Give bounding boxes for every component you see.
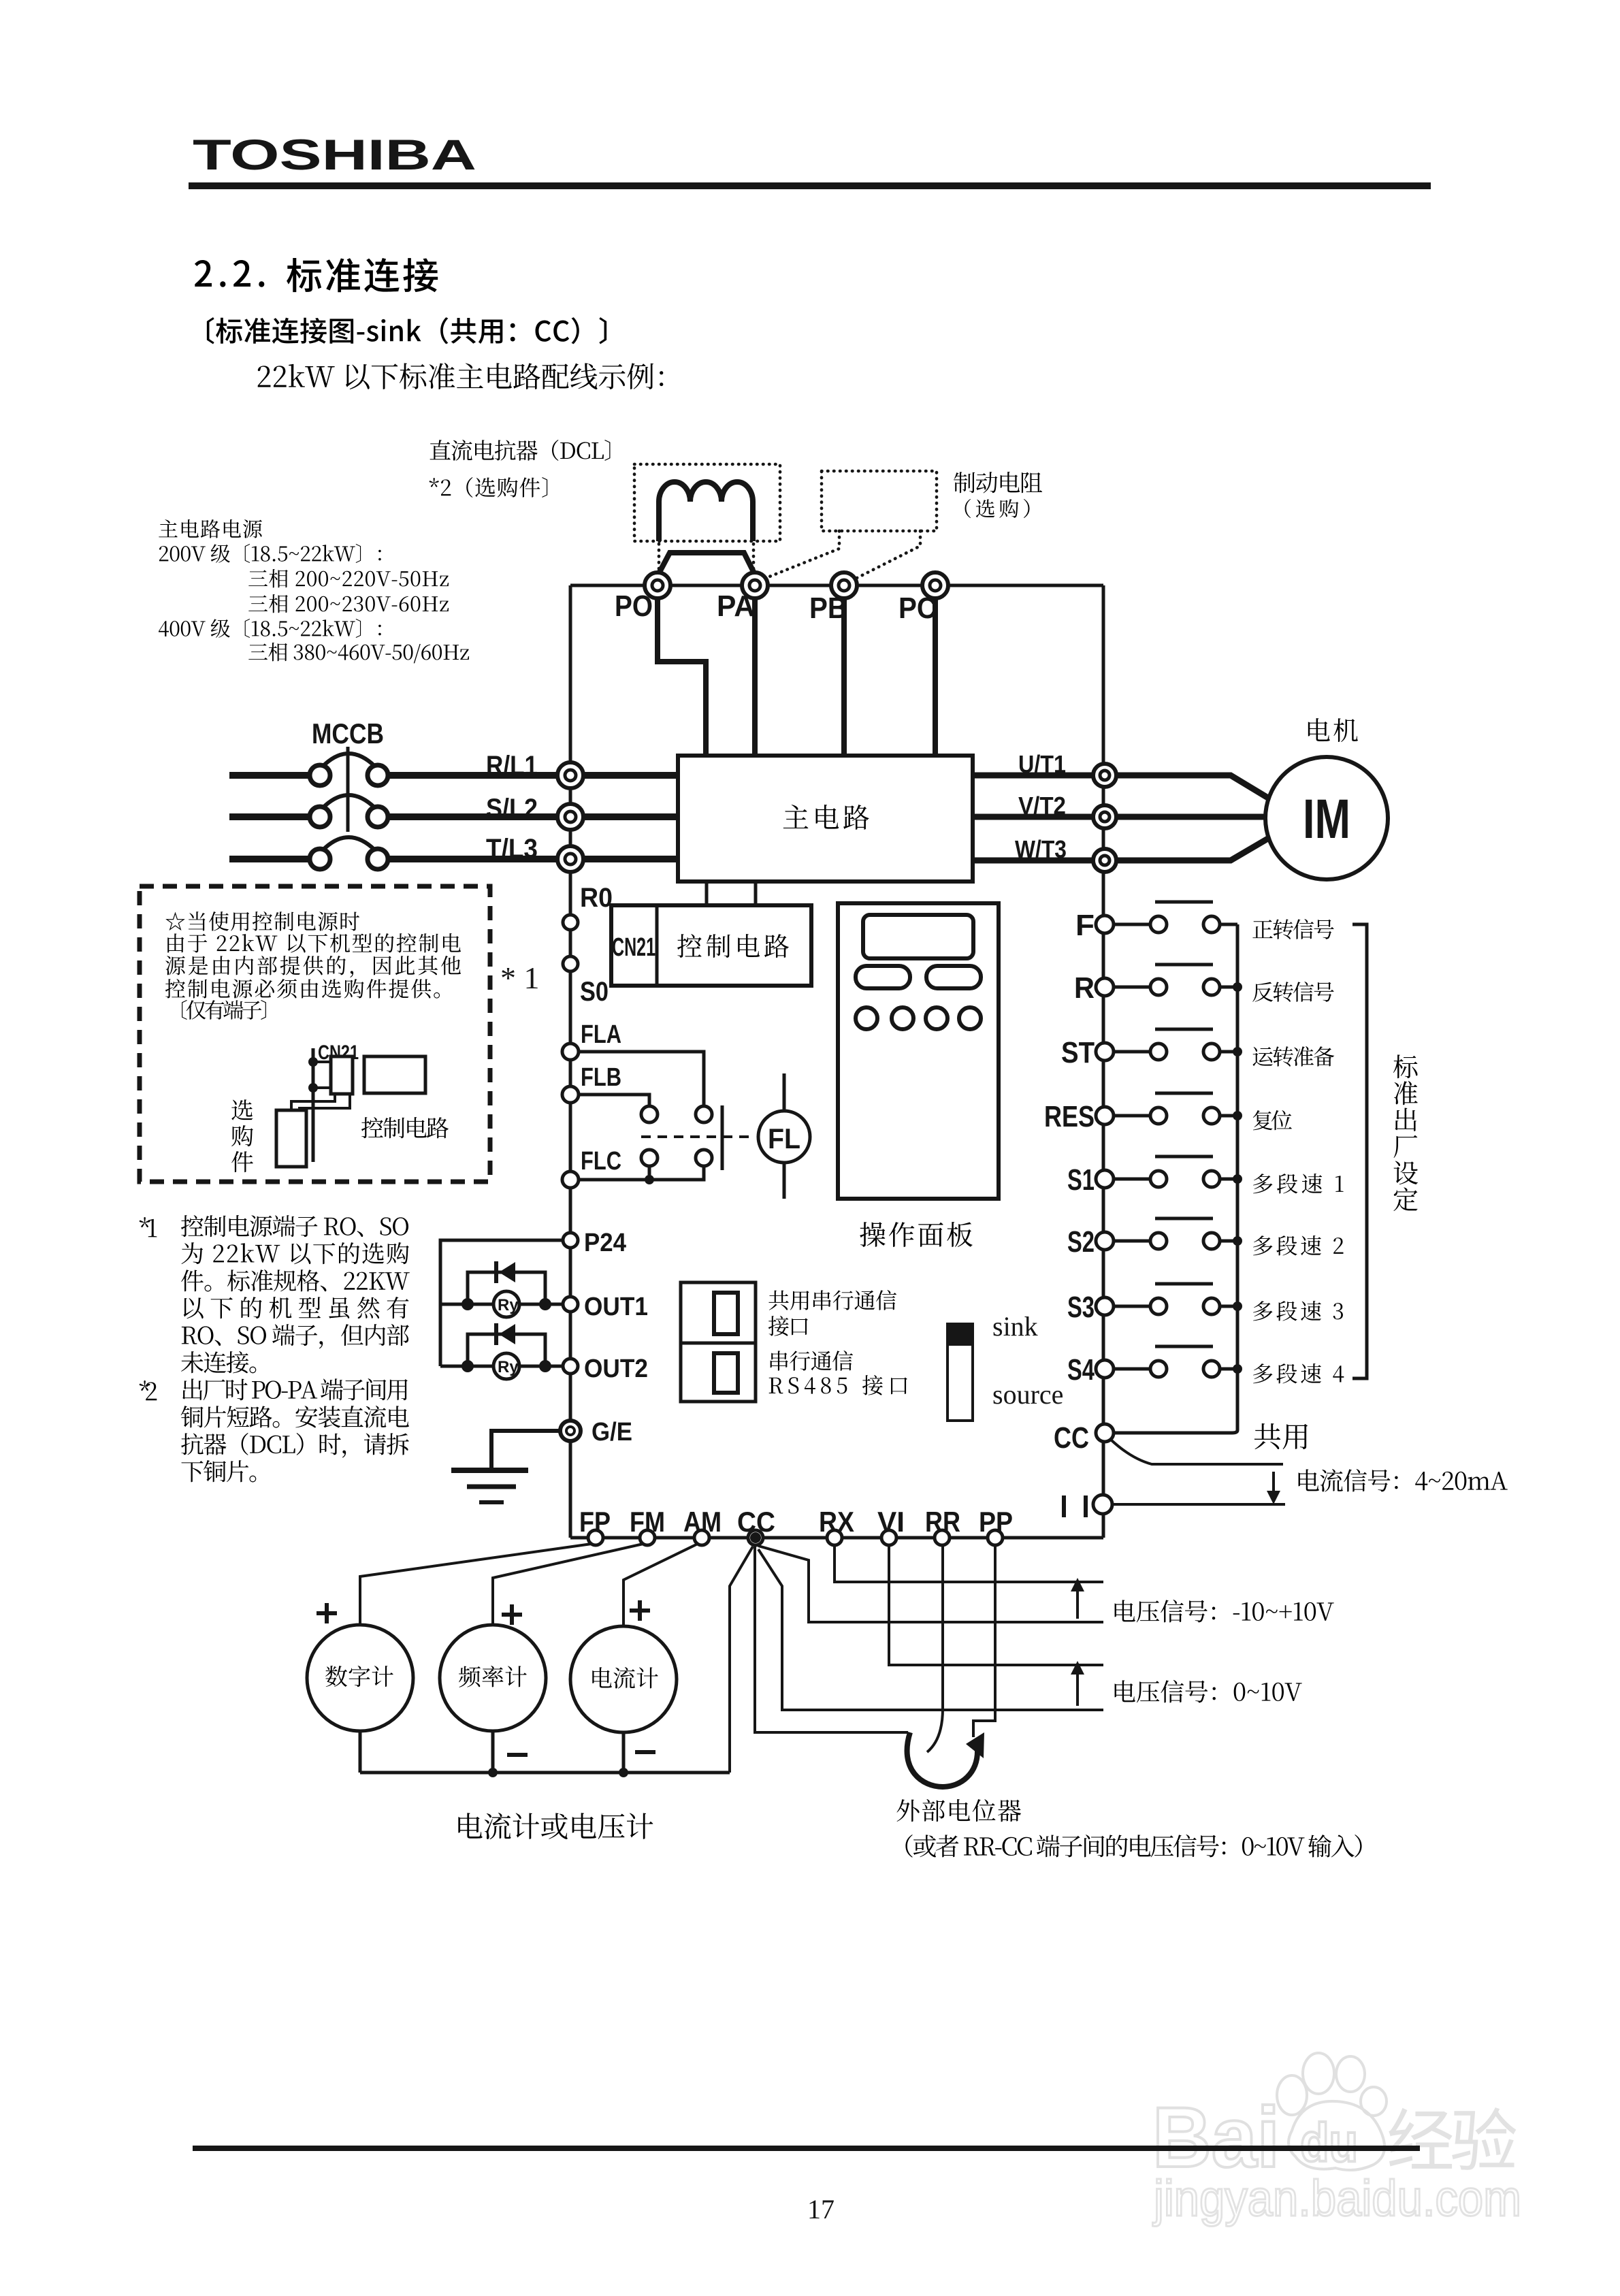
- switch row S2: [1114, 1240, 1150, 1243]
- braking resistor dotted box: [822, 471, 937, 531]
- note line3: [165, 956, 461, 977]
- wire PB drop: [841, 598, 847, 757]
- svg-text:G/E: G/E: [592, 1418, 632, 1446]
- connector CN21 divider: [655, 905, 659, 986]
- terminal G/E: [560, 1421, 581, 1441]
- mini junction1: [308, 1057, 318, 1067]
- header rule: [189, 182, 1431, 189]
- terminal W/T3: [1093, 849, 1116, 872]
- wire top bus PO-PC: [570, 584, 1103, 587]
- label DCL: [430, 440, 611, 461]
- terminal CC bottom: [748, 1530, 763, 1545]
- wire II line: [1112, 1503, 1285, 1506]
- wire meters common: [360, 1771, 730, 1775]
- terminal P24: [563, 1233, 578, 1248]
- svg-text:TOSHIBA: TOSHIBA: [193, 131, 476, 179]
- label DCL option: [430, 477, 548, 498]
- terminal II: [1093, 1495, 1112, 1514]
- svg-text:OUT1: OUT1: [584, 1293, 648, 1321]
- wire AM to meter3: [623, 1544, 698, 1627]
- serial connector box: [681, 1282, 756, 1402]
- footnote *1 mark: [140, 1217, 157, 1237]
- label serial rs485a: [771, 1351, 853, 1371]
- svg-text:R: R: [1074, 971, 1095, 1005]
- current signal arrow: [1272, 1472, 1275, 1493]
- label run ready: [1252, 1046, 1334, 1067]
- label 3ph 200-230: [248, 594, 449, 613]
- terminal PC: [922, 572, 948, 598]
- label operation panel: [860, 1222, 973, 1247]
- label reset: [1253, 1110, 1292, 1130]
- switch row S4: [1114, 1368, 1150, 1371]
- label serial rs485b: [769, 1375, 907, 1395]
- control circuit box: [611, 905, 811, 986]
- svg-text:FLB: FLB: [581, 1063, 621, 1092]
- meter digital: [307, 1625, 413, 1731]
- svg-text:FL: FL: [768, 1122, 800, 1154]
- wire PO-PA jumper: [658, 553, 755, 576]
- footnote *2 mark: [140, 1380, 157, 1400]
- terminal S/L2: [557, 804, 583, 830]
- wire FP to meter1: [360, 1544, 592, 1627]
- mini option box: [276, 1110, 306, 1167]
- svg-text:RX: RX: [819, 1506, 854, 1538]
- mini vertical wire: [312, 1048, 315, 1162]
- svg-text:Ry: Ry: [498, 1358, 519, 1376]
- motor IM circle: [1265, 757, 1388, 879]
- wire FLC to contacts: [579, 1167, 704, 1180]
- svg-text:FP: FP: [579, 1506, 611, 1538]
- label braking optional: [965, 499, 1030, 518]
- breaker MCCB arcs: [323, 754, 375, 766]
- wire VI drop: [889, 1545, 1103, 1665]
- relay Ry2 coil: [493, 1353, 519, 1379]
- wire PA drop: [752, 598, 758, 757]
- wire left frame: [569, 585, 572, 1538]
- inductor DCL coil: [659, 482, 753, 541]
- svg-text:OUT2: OUT2: [584, 1355, 648, 1383]
- breaker MCCB pole contacts: [310, 765, 330, 786]
- serial connector pin1: [714, 1293, 738, 1334]
- leader to PB dotted: [850, 531, 920, 581]
- svg-text:S3: S3: [1067, 1291, 1095, 1324]
- wire mainbox to ctrlbox b: [754, 882, 758, 905]
- wire meters return to CC: [730, 1547, 753, 1773]
- footer rule overlay: [193, 2146, 1420, 2151]
- wire output V/T2: [973, 814, 1267, 820]
- label digital meter: [325, 1666, 393, 1687]
- terminal RX bottom: [827, 1530, 842, 1545]
- label braking resistor: [954, 472, 1042, 493]
- wire FL stub top: [783, 1073, 786, 1111]
- wire CC to current line: [1111, 1440, 1283, 1464]
- wire FL stub bottom: [783, 1163, 786, 1199]
- junction dots relay rows: [461, 1298, 474, 1310]
- diode D2: [499, 1324, 515, 1344]
- wire phase T/L3 feed: [229, 856, 309, 862]
- svg-text:S/L2: S/L2: [486, 794, 538, 824]
- junction CC bottom: [750, 1532, 761, 1543]
- contact FL switch circles: [641, 1106, 658, 1122]
- terminal FLA: [562, 1044, 579, 1060]
- label external potentiometer: [896, 1799, 1021, 1822]
- svg-text:PB: PB: [809, 592, 847, 625]
- svg-text:PP: PP: [979, 1506, 1013, 1538]
- wire mainbox to ctrlbox a: [705, 882, 709, 905]
- svg-text:F: F: [1075, 909, 1095, 942]
- label reverse signal: [1252, 982, 1333, 1002]
- minus sign meter3: [635, 1750, 655, 1754]
- svg-text:source: source: [992, 1379, 1063, 1410]
- wire CC to vs1 low: [758, 1546, 1103, 1622]
- mini stub1: [313, 1061, 331, 1063]
- footer rule: [193, 2146, 1420, 2151]
- svg-text:RR: RR: [925, 1506, 960, 1538]
- terminal V/T2: [1093, 805, 1116, 828]
- footnote1 line4: [184, 1297, 409, 1319]
- wire PO drop with jog: [658, 598, 706, 757]
- mini socket rect: [364, 1056, 425, 1093]
- wire FLB to contact: [579, 1095, 649, 1105]
- switch row ST: [1114, 1050, 1150, 1054]
- wire FM to meter2: [493, 1544, 643, 1627]
- wire output W/T3: [973, 837, 1270, 860]
- junction meter3: [619, 1768, 628, 1777]
- footnote2 line2: [181, 1406, 409, 1428]
- FL linkage bar: [721, 1105, 724, 1170]
- serial connector pin2: [714, 1353, 738, 1393]
- svg-text:MCCB: MCCB: [312, 717, 384, 749]
- label serial common2: [768, 1316, 808, 1336]
- terminal RR bottom: [935, 1530, 950, 1545]
- wire CC to vs2 low: [758, 1549, 1103, 1710]
- svg-text:U/T1: U/T1: [1018, 750, 1066, 778]
- note line4: [165, 979, 440, 999]
- footnote1 line2: [182, 1242, 409, 1264]
- wire bottom bus: [570, 1536, 1103, 1540]
- label II: [1062, 1495, 1066, 1517]
- terminal U/T1: [1093, 764, 1116, 787]
- FL linkage dashed: [641, 1135, 756, 1138]
- wire phase S/L2 feed: [229, 813, 309, 820]
- relay Ry1 coil: [493, 1291, 519, 1317]
- mini junction2: [308, 1083, 318, 1093]
- wire to ground: [491, 1431, 560, 1469]
- breaker MCCB tie bar: [346, 747, 350, 832]
- svg-text:AM: AM: [683, 1506, 722, 1538]
- wire phase R/L1 feed: [229, 772, 309, 779]
- wire PC drop: [933, 598, 938, 757]
- svg-text:CC: CC: [1054, 1421, 1089, 1455]
- svg-text:VI: VI: [877, 1506, 905, 1538]
- wire PP drop: [973, 1545, 995, 1737]
- svg-text:FM: FM: [630, 1506, 665, 1538]
- wire RR wiper: [927, 1545, 943, 1752]
- terminal FLC: [562, 1171, 579, 1188]
- wire DCL leg right dotted: [752, 544, 756, 572]
- wire right frame: [1102, 585, 1105, 1538]
- wire P24 rail: [440, 1240, 563, 1366]
- main circuit box: [678, 756, 973, 882]
- label current meter: [592, 1667, 658, 1689]
- serial connector divider: [681, 1342, 756, 1345]
- svg-text:IM: IM: [1303, 788, 1350, 850]
- terminal S0: [563, 956, 578, 971]
- svg-text:R/L1: R/L1: [486, 751, 538, 781]
- watermark jingyan cjk: [1389, 2107, 1516, 2170]
- svg-text:du: du: [1300, 2112, 1358, 2173]
- heading 标准连接: [287, 258, 438, 292]
- svg-text:17: 17: [807, 2194, 835, 2225]
- label main circuit: [783, 805, 869, 830]
- watermark paw: [1277, 2053, 1387, 2170]
- footnote1 line6: [181, 1351, 256, 1373]
- terminal VI bottom: [881, 1530, 896, 1545]
- svg-text:PO: PO: [615, 589, 653, 623]
- footnote1 line5: [182, 1324, 409, 1348]
- terminal FP bottom: [588, 1530, 603, 1545]
- label rr-cc note: [905, 1834, 1361, 1858]
- terminal PB: [831, 572, 857, 598]
- bracket standard setting: [1352, 924, 1367, 1378]
- switch row R: [1114, 986, 1150, 989]
- arrow vs1: [1076, 1587, 1079, 1619]
- meter frequency: [440, 1625, 546, 1731]
- meter current: [570, 1626, 677, 1732]
- keypad button2: [926, 966, 981, 988]
- keypad keys: [856, 1007, 877, 1029]
- svg-text:T/L3: T/L3: [486, 834, 538, 864]
- plus sign meter3: [630, 1600, 650, 1621]
- label control circuit small: [361, 1117, 449, 1138]
- label multispeed1: [1253, 1174, 1344, 1194]
- label ammeter or voltmeter: [458, 1813, 653, 1839]
- diode loop1: [468, 1272, 545, 1304]
- wire CC to pot: [755, 1547, 908, 1732]
- svg-text:V/T2: V/T2: [1018, 792, 1066, 820]
- junction meter2: [488, 1768, 498, 1777]
- label multispeed4: [1253, 1363, 1344, 1384]
- label multispeed3: [1253, 1301, 1343, 1321]
- svg-text:P24: P24: [584, 1229, 626, 1257]
- svg-text:sink: sink: [992, 1311, 1038, 1342]
- terminal R/L1: [557, 762, 583, 788]
- terminal FLB: [562, 1086, 579, 1103]
- sink-source switch knob: [947, 1324, 973, 1346]
- wire DCL leg left dotted: [658, 544, 661, 572]
- footnote2 line4: [181, 1460, 256, 1482]
- label 400V class: [159, 619, 381, 638]
- label voltage signal 1: [1115, 1600, 1334, 1622]
- arrow vs2: [1076, 1670, 1079, 1706]
- svg-text:* 1: * 1: [500, 960, 540, 995]
- plus sign meter2: [502, 1604, 522, 1625]
- terminal AM bottom: [694, 1530, 709, 1545]
- junction FLC: [645, 1175, 654, 1184]
- label 3ph 380-460: [248, 643, 469, 663]
- mini wire step2: [299, 1094, 350, 1110]
- subheading sink CC: [207, 317, 606, 344]
- wire output U/T1: [973, 775, 1270, 799]
- plus sign meter1: [317, 1603, 337, 1623]
- wire OUT1 row: [440, 1303, 563, 1306]
- svg-text:jingyan.baidu.com: jingyan.baidu.com: [1152, 2170, 1521, 2227]
- minus sign meter2: [507, 1753, 528, 1757]
- footnote1 line1: [181, 1215, 408, 1237]
- svg-text:PA: PA: [717, 589, 755, 623]
- keypad display: [863, 915, 973, 958]
- diode loop2: [468, 1334, 545, 1366]
- wire RX drop: [835, 1545, 1103, 1582]
- switch row RES: [1114, 1114, 1150, 1118]
- diode D1: [499, 1262, 515, 1282]
- terminal PP bottom: [988, 1530, 1003, 1545]
- terminal PO: [645, 572, 670, 598]
- svg-text:ST: ST: [1061, 1036, 1095, 1069]
- terminal OUT1: [563, 1297, 578, 1312]
- mini wire step1: [291, 1094, 335, 1110]
- note dashed box: [140, 886, 490, 1182]
- svg-text:S1: S1: [1067, 1163, 1095, 1197]
- footnote2 line3: [181, 1433, 409, 1458]
- svg-text:S4: S4: [1067, 1353, 1095, 1387]
- switch row S3: [1114, 1305, 1150, 1308]
- svg-text:FLC: FLC: [581, 1147, 621, 1176]
- label serial common1: [768, 1290, 896, 1310]
- svg-text:RES: RES: [1044, 1100, 1095, 1133]
- svg-text:FLA: FLA: [581, 1020, 621, 1049]
- relay coil FL: [758, 1111, 810, 1163]
- terminal R0: [563, 915, 578, 930]
- wire FLA to contact: [579, 1052, 704, 1105]
- label main power: [159, 519, 262, 538]
- svg-text:S0: S0: [580, 977, 609, 1007]
- line 22kW example: [258, 363, 664, 389]
- wire OUT2 row: [440, 1365, 563, 1368]
- terminal T/L3: [557, 846, 583, 872]
- mini stub2: [313, 1086, 331, 1089]
- switch row F: [1114, 923, 1150, 926]
- svg-text:W/T3: W/T3: [1015, 835, 1067, 863]
- label forward signal: [1252, 919, 1333, 939]
- label standard factory setting: [1393, 1054, 1418, 1211]
- wire meter2 bottom: [491, 1731, 495, 1773]
- svg-text:R0: R0: [580, 883, 613, 913]
- sink-source switch body: [947, 1324, 973, 1421]
- note line5: [182, 1000, 266, 1020]
- potentiometer arc: [907, 1732, 977, 1787]
- ground symbol: [451, 1468, 528, 1473]
- note line2: [167, 933, 461, 953]
- keypad button1: [856, 966, 910, 988]
- svg-text:CN21: CN21: [612, 933, 655, 962]
- label common: [1254, 1423, 1308, 1449]
- footnote2 line1: [182, 1378, 408, 1400]
- label current signal: [1299, 1469, 1508, 1492]
- heading 2.2: [195, 260, 264, 287]
- terminal FM bottom: [640, 1530, 655, 1545]
- label 200V class: [159, 544, 381, 563]
- wire meter1 bottom: [359, 1731, 362, 1773]
- wire FLC junction up: [648, 1166, 651, 1180]
- wire common vertical: [1114, 924, 1237, 1433]
- svg-text:Ry: Ry: [498, 1296, 519, 1314]
- label voltage signal 2: [1115, 1680, 1302, 1702]
- leader to PA dotted: [761, 531, 839, 580]
- label frequency meter: [459, 1666, 527, 1687]
- label control circuit: [677, 934, 789, 958]
- footnote1 line3: [181, 1270, 410, 1292]
- wire meter3 bottom: [622, 1732, 626, 1773]
- label optional part vertical: [231, 1099, 253, 1172]
- keypad box: [838, 903, 999, 1199]
- mini plug rect: [331, 1056, 353, 1094]
- terminal PA: [742, 572, 768, 598]
- svg-text:PC: PC: [898, 592, 937, 625]
- note line1: [165, 911, 359, 931]
- DCL dotted box: [634, 464, 780, 541]
- label multispeed2: [1253, 1235, 1343, 1256]
- label motor: [1308, 718, 1358, 742]
- svg-text:S2: S2: [1067, 1225, 1095, 1259]
- label 3ph 200-220: [248, 569, 449, 587]
- switch row S1: [1114, 1178, 1150, 1181]
- terminal OUT2: [563, 1359, 578, 1374]
- terminal CC right: [1096, 1424, 1114, 1442]
